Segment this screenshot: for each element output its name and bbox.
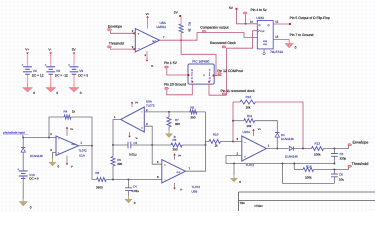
resistor R4 1k feedback — [64, 115, 71, 119]
svg-text:3900: 3900 — [96, 185, 103, 189]
DC source V9 — [70, 66, 79, 68]
svg-text:V+: V+ — [178, 155, 182, 158]
ground U10A pin2 — [233, 175, 235, 178]
wire recovered clock down to PIC pin11 — [226, 48, 228, 95]
svg-text:R4: R4 — [64, 110, 68, 114]
svg-text:10u: 10u — [339, 177, 344, 181]
svg-text:U13A: U13A — [256, 16, 265, 20]
junction C4 node — [128, 179, 130, 181]
ground 0 under V9 — [73, 84, 75, 88]
svg-text:+: + — [164, 163, 166, 167]
resistor R11 10k — [233, 120, 244, 122]
svg-text:C3: C3 — [133, 141, 137, 145]
svg-text:390: 390 — [117, 162, 122, 166]
diode D1N4148 photodiode — [22, 138, 24, 148]
power pin V+ — [26, 53, 29, 55]
junction C5 node — [333, 148, 335, 150]
capacitor C3 0.01u — [128, 142, 131, 149]
svg-text:C6: C6 — [339, 173, 343, 177]
wire U1A feedback loop — [49, 117, 64, 138]
ground under R7 — [168, 130, 170, 134]
svg-text:D1N4148: D1N4148 — [30, 154, 43, 158]
svg-text:0: 0 — [295, 46, 297, 50]
svg-text:100k: 100k — [305, 176, 312, 180]
wire D2 to R13 node — [294, 148, 312, 150]
wire pin20 ground to PIC — [167, 84, 193, 95]
wire D1 to output rail — [276, 137, 278, 148]
svg-text:1k: 1k — [72, 110, 76, 114]
svg-text:Pin 5 Output of D Flip-Flop: Pin 5 Output of D Flip-Flop — [290, 16, 330, 20]
svg-text:PRE: PRE — [263, 40, 268, 43]
svg-text:R12: R12 — [246, 95, 252, 99]
svg-text:R9: R9 — [190, 105, 194, 109]
wire PIC pin11 stub — [209, 84, 227, 95]
wire 5V to flip-flop pin — [237, 10, 258, 24]
junction diode tap — [22, 137, 24, 139]
svg-text:Pin 1 5V: Pin 1 5V — [164, 61, 178, 65]
resistor R5 390 vertical — [112, 145, 114, 157]
DC source V3 — [46, 66, 55, 68]
svg-text:Threshold: Threshold — [352, 162, 369, 166]
wire ground stub — [233, 164, 235, 176]
svg-text:Comparator output: Comparator output — [200, 25, 228, 29]
wire R11 to diode D1 — [255, 121, 278, 133]
wire R2 to output node — [180, 33, 182, 40]
svg-text:R2: R2 — [188, 22, 192, 26]
svg-text:+: + — [58, 151, 60, 155]
svg-text:R11: R11 — [247, 114, 253, 118]
svg-text:V+: V+ — [135, 101, 139, 104]
junction ground stub — [233, 163, 235, 165]
svg-text:V3: V3 — [56, 69, 60, 73]
svg-text:U9B: U9B — [192, 190, 198, 194]
DC source V10 — [19, 170, 28, 172]
svg-text:R10: R10 — [213, 132, 219, 136]
svg-text:+: + — [141, 126, 143, 130]
svg-text:1k: 1k — [215, 144, 219, 148]
U8A V- pin below — [146, 51, 148, 60]
svg-text:−: − — [141, 110, 143, 114]
wire R10 to U10A — [221, 140, 242, 142]
junction rail B — [205, 144, 207, 146]
wire comparator output down to PIC pin12 — [181, 40, 216, 75]
junction R5 node — [112, 144, 114, 146]
wire U1A pin3 to ground — [53, 153, 57, 160]
resistor R2 2k pull-up — [179, 24, 183, 33]
wire V+ to V4 — [27, 54, 29, 67]
wire rail B resistor R8 390 — [152, 144, 171, 146]
svg-text:2k: 2k — [188, 29, 192, 33]
resistor R7 390 to ground — [168, 112, 170, 117]
svg-text:DC = 5: DC = 5 — [78, 74, 88, 78]
capacitor C4 0.01u — [128, 180, 130, 188]
ground 0 under V4 — [27, 84, 29, 88]
wire recovered clock to CLK — [227, 31, 258, 49]
svg-text:100k: 100k — [314, 153, 321, 157]
resistor R13 100k — [312, 147, 324, 151]
svg-text:390: 390 — [175, 122, 180, 126]
wire photodiode input to U1A pin2 — [23, 135, 56, 138]
wire pin1 5V to PIC — [167, 69, 188, 76]
svg-text:V+: V+ — [70, 128, 74, 131]
junction R5 rail A — [112, 179, 114, 181]
wire V3 to ground — [50, 75, 52, 85]
power pin 5V — [73, 53, 76, 55]
svg-text:Q: Q — [268, 24, 270, 27]
wire V4 to ground — [27, 75, 29, 85]
wire comparator output to flip-flop D — [181, 33, 257, 41]
svg-text:D1N4148: D1N4148 — [281, 137, 294, 141]
svg-text:Pin 4 to 5v: Pin 4 to 5v — [251, 8, 267, 12]
wire diode to V10 — [22, 152, 24, 171]
capacitor C5 330p — [333, 149, 335, 154]
wire U13A CLR stub — [263, 49, 265, 53]
wire mid rail to threshold rail — [294, 164, 303, 170]
svg-text:TL072: TL072 — [78, 148, 87, 152]
svg-text:V4: V4 — [33, 69, 37, 73]
DC source V4 — [23, 66, 32, 68]
svg-text:−: − — [244, 141, 246, 145]
svg-text:V+: V+ — [258, 128, 262, 131]
svg-text:C5: C5 — [340, 152, 344, 156]
U10A V+ stub — [253, 131, 255, 137]
svg-text:photodiode input: photodiode input — [3, 130, 25, 134]
svg-text:10k: 10k — [247, 124, 252, 128]
wire rail jog to R10 — [206, 141, 210, 145]
wire 5V to R2 — [180, 17, 182, 24]
wire Envelope to U8A pin2 — [111, 31, 135, 33]
svg-text:CLK: CLK — [260, 30, 265, 33]
junction C3 node — [151, 144, 153, 146]
wire R14 to Threshold — [314, 167, 349, 170]
svg-text:0.01u: 0.01u — [132, 189, 140, 193]
junction feedback node U1A — [48, 137, 50, 139]
svg-text:0: 0 — [30, 206, 32, 210]
svg-text:O: O — [203, 74, 205, 77]
wire U1A output down to R6 — [92, 146, 97, 180]
svg-text:V+: V+ — [25, 47, 29, 51]
svg-text:+: + — [244, 155, 246, 159]
junction C6 node — [333, 169, 335, 171]
U8A V+ pin to Vs — [147, 18, 149, 29]
svg-text:R14: R14 — [306, 164, 312, 168]
power pin V- — [49, 53, 52, 55]
svg-text:DC = 12: DC = 12 — [32, 74, 44, 78]
svg-text:Pin 11 recovered clock: Pin 11 recovered clock — [221, 89, 255, 93]
resistor R10 1k — [209, 139, 221, 143]
wire R12 to output node — [255, 102, 303, 149]
flip-flop U13A 74LS74A — [257, 21, 273, 49]
wire R9 down to rail B — [205, 112, 207, 145]
junction 5V wire — [245, 23, 247, 25]
svg-text:TL072: TL072 — [192, 185, 201, 189]
svg-text:V9: V9 — [79, 69, 83, 73]
node Envelope output — [348, 144, 352, 146]
U1A V- stub — [66, 156, 68, 164]
svg-text:330p: 330p — [340, 157, 347, 161]
U9B V- stub — [174, 183, 176, 188]
title block — [239, 192, 375, 211]
diode D2 D1N4148 series — [289, 146, 292, 150]
svg-text:CLR: CLR — [263, 43, 268, 46]
wire PIC pin12 stub — [214, 75, 222, 77]
svg-text:Envelope: Envelope — [353, 140, 369, 144]
wire Threshold to U8A pin3 — [111, 47, 135, 50]
wire V- to V3 — [50, 54, 52, 67]
svg-text:R13: R13 — [315, 141, 321, 145]
svg-text:Recovered Clock: Recovered Clock — [210, 41, 236, 45]
svg-text:Title: Title — [240, 201, 246, 205]
svg-text:DC = 5: DC = 5 — [29, 177, 39, 181]
svg-text:Envelope: Envelope — [108, 24, 122, 28]
svg-text:390: 390 — [173, 147, 178, 151]
U9A V+ stub — [131, 103, 133, 107]
wire C3 node down to U9B pin5 — [152, 145, 162, 164]
wire V9 to ground — [73, 75, 75, 85]
svg-text:Pin 20 Ground: Pin 20 Ground — [164, 83, 186, 87]
svg-text:0.01u: 0.01u — [129, 152, 137, 156]
wire bottom return rail — [283, 164, 335, 184]
svg-text:Threshold: Threshold — [109, 42, 124, 46]
svg-text:0: 0 — [80, 91, 82, 95]
U1A V+ stub — [66, 129, 68, 137]
svg-text:V-: V- — [71, 166, 74, 169]
svg-text:C4: C4 — [133, 184, 137, 188]
junction U10A input node — [232, 140, 234, 142]
svg-text:V-: V- — [180, 189, 183, 192]
resistor R6 3900 — [97, 178, 107, 182]
ground under flip-flop — [288, 39, 290, 43]
junction U8A out / R2 — [180, 39, 182, 41]
wire U9A output to C3 — [113, 120, 128, 146]
svg-text:−: − — [138, 47, 140, 51]
ground under V10 — [22, 199, 24, 202]
svg-text:V+: V+ — [146, 12, 150, 16]
op-amp U8A LM311 comparator — [135, 29, 159, 53]
junction R7 tap — [168, 111, 170, 113]
resistor R9 390 — [190, 110, 197, 114]
wire C3 to junction — [131, 144, 152, 146]
svg-text:Pin 12 COMPout: Pin 12 COMPout — [217, 69, 242, 73]
svg-text:+: + — [138, 32, 140, 36]
capacitor C6 10u — [333, 170, 335, 175]
svg-text:R8: R8 — [173, 138, 177, 142]
ground under C4 — [128, 196, 130, 200]
svg-text:−: − — [164, 178, 166, 182]
ground U1A pin3 — [52, 159, 54, 163]
junction R12 output — [302, 148, 304, 150]
ground 0 under V3 — [50, 84, 52, 88]
svg-text:LM311: LM311 — [157, 25, 167, 29]
U9A V- stub — [129, 132, 131, 136]
U9B V+ stub — [174, 155, 176, 160]
svg-text:DC = -12: DC = -12 — [55, 74, 68, 78]
svg-text:74LS74A: 74LS74A — [270, 50, 284, 54]
wire C6 to bottom rail — [333, 177, 335, 184]
svg-text:−: − — [58, 137, 60, 141]
diode D1 D1N4148 vertical — [275, 132, 279, 134]
wire R4 to output node — [71, 117, 92, 146]
svg-text:U10A: U10A — [243, 130, 251, 134]
svg-text:D1N4148: D1N4148 — [285, 155, 298, 159]
svg-text:U1A: U1A — [79, 153, 85, 157]
junction U1A output — [91, 145, 93, 147]
wire feedback vertical to R12 R11 — [232, 102, 234, 141]
wire pin4 connector down — [245, 15, 247, 24]
resistor R14 100k — [303, 168, 314, 172]
wire C5 to mid rail — [333, 156, 335, 163]
svg-text:V-: V- — [48, 47, 51, 51]
node Threshold output — [348, 165, 352, 167]
wire C4 to ground — [128, 191, 130, 196]
svg-text:R6: R6 — [95, 171, 99, 175]
wire R5 to rail A — [112, 166, 114, 180]
wire R6 to filter rail — [106, 179, 162, 181]
svg-text:0: 0 — [33, 91, 35, 95]
wire V10 to ground — [22, 177, 24, 200]
svg-text:Pin 7 to Ground: Pin 7 to Ground — [290, 33, 314, 37]
wire 5V to V9 — [73, 54, 75, 67]
op-amp U9A TL072 pointing left — [121, 107, 145, 132]
wire U10A pin2 to ground rail — [226, 156, 334, 164]
svg-text:D: D — [259, 24, 261, 27]
svg-text:<Title>: <Title> — [254, 204, 263, 208]
svg-text:10k: 10k — [246, 105, 251, 109]
svg-text:V-: V- — [151, 64, 154, 68]
svg-text:V-: V- — [136, 137, 139, 140]
svg-text:390: 390 — [190, 115, 195, 119]
svg-text:0: 0 — [56, 91, 58, 95]
svg-text:PIC 16F690: PIC 16F690 — [192, 60, 209, 64]
resistor R12 10k — [233, 101, 240, 103]
wire R13 to Envelope — [324, 146, 349, 149]
